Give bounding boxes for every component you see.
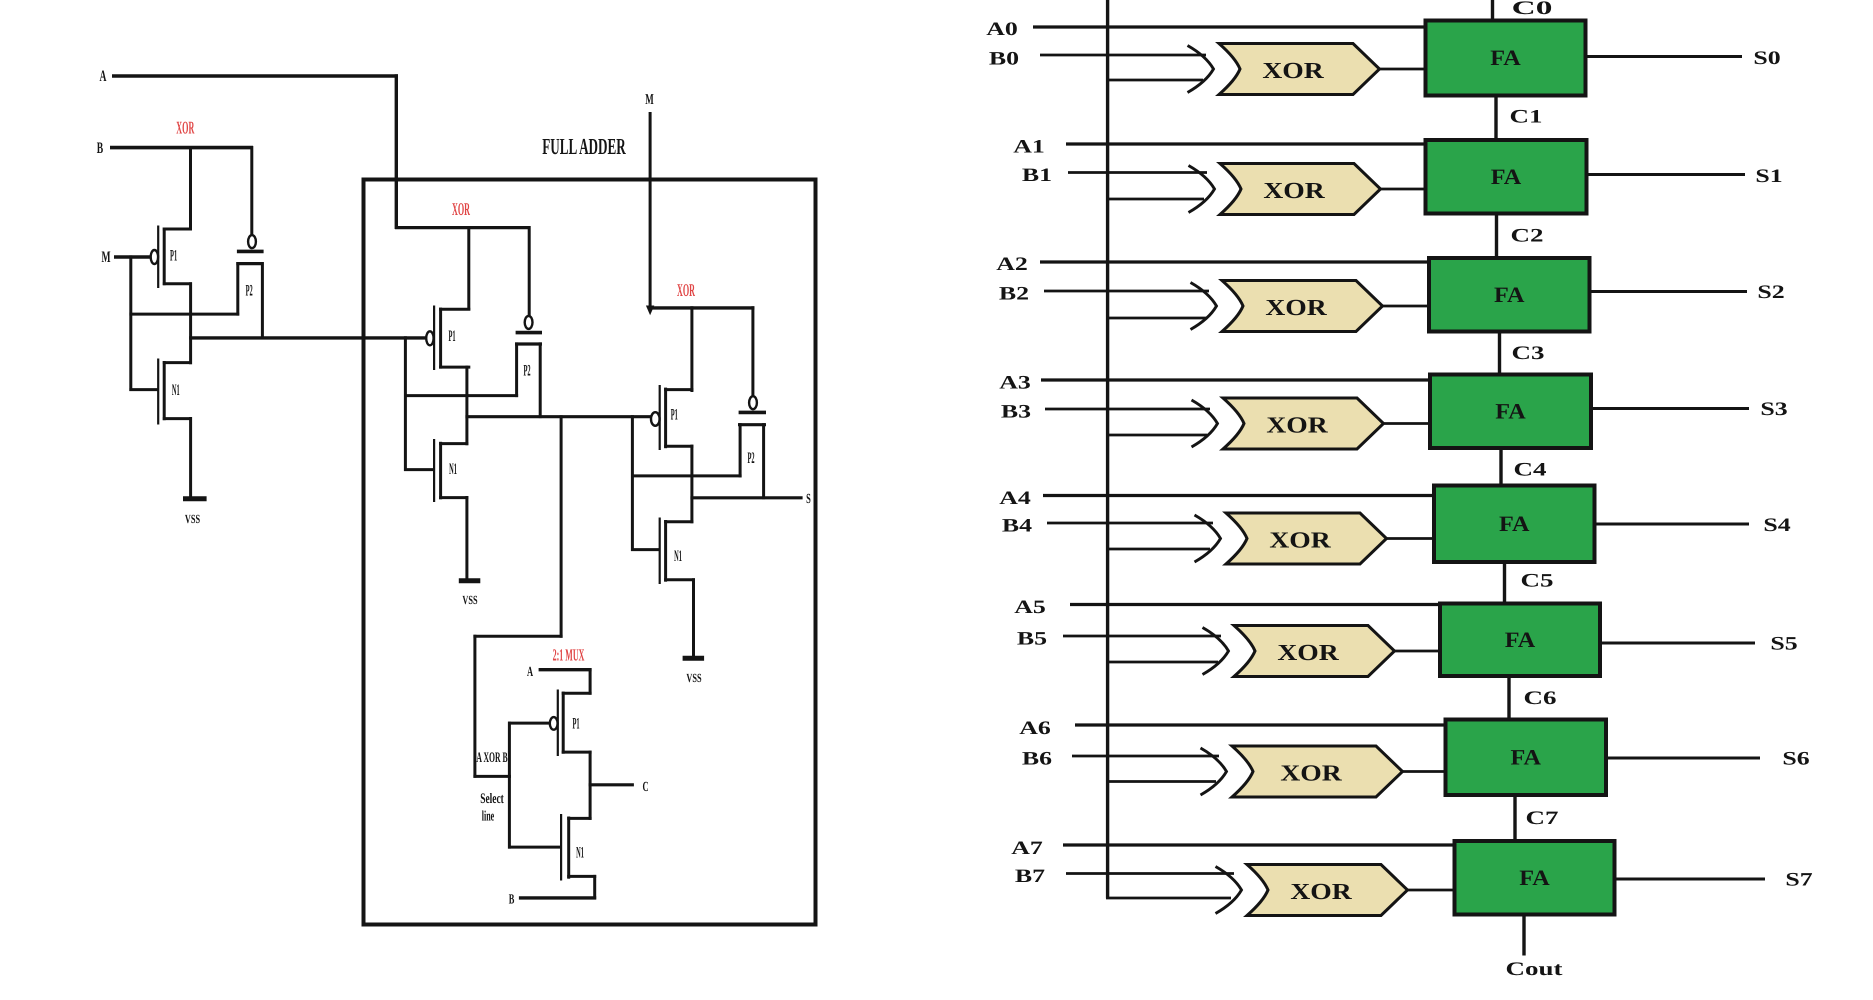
- svg-text:C4: C4: [1514, 460, 1548, 481]
- wire carry C3: [1498, 332, 1501, 375]
- svg-text:VSS: VSS: [462, 593, 477, 607]
- wire A3: [1041, 378, 1430, 381]
- transistor P2 (XOR3) gate bar: [739, 411, 766, 415]
- svg-text:VSS: VSS: [185, 512, 200, 526]
- wire carry C4: [1499, 448, 1502, 486]
- wire B5: [1063, 635, 1221, 638]
- wire A4: [1043, 494, 1434, 497]
- wire XOR3 left node to P2 left leg: [631, 474, 742, 477]
- gate XOR0 input chevron: [1188, 46, 1214, 93]
- wire XOR2 output to XOR3 P1: [465, 415, 651, 418]
- transistor N1 (MUX) source lead: [567, 875, 596, 878]
- svg-text:FA: FA: [1494, 282, 1525, 307]
- wire carry C1: [1494, 96, 1497, 141]
- wire XOR6 output: [1401, 770, 1446, 773]
- svg-text:S2: S2: [1757, 282, 1784, 303]
- ground VSS (XOR1) bar: [183, 496, 207, 501]
- wire XOR2 top to P2 gate: [528, 226, 531, 317]
- wire select input row 6: [1106, 780, 1216, 783]
- wire B3: [1045, 408, 1210, 411]
- svg-text:A5: A5: [1014, 597, 1046, 618]
- wire XOR7 output: [1406, 889, 1455, 892]
- transistor N1 (XOR2) gate bar: [433, 439, 435, 502]
- svg-text:FA: FA: [1499, 511, 1530, 536]
- svg-text:Cout: Cout: [1506, 959, 1564, 980]
- svg-text:Select: Select: [480, 791, 504, 807]
- svg-text:B2: B2: [999, 284, 1029, 305]
- wire A2: [1040, 260, 1429, 263]
- transistor N1 (XOR1) gate bar: [157, 359, 159, 425]
- transistor P2 (XOR1) right leg: [261, 262, 264, 339]
- transistor P2 (XOR1) gate bubble: [248, 235, 256, 248]
- svg-text:B1: B1: [1022, 165, 1052, 186]
- wire select to N1 gate (MUX): [508, 846, 561, 849]
- wire select input row 7: [1106, 897, 1231, 900]
- transistor N1 (XOR2) source lead: [439, 496, 468, 499]
- wire XOR3 left node to N1 gate: [631, 548, 660, 551]
- wire select line vertical: [508, 722, 511, 849]
- transistor P1 (XOR1) gate bar: [157, 226, 159, 289]
- svg-text:XOR: XOR: [1269, 528, 1331, 553]
- wire select junction horizontal: [473, 635, 562, 638]
- svg-text:line: line: [482, 809, 495, 825]
- svg-text:M: M: [645, 92, 654, 108]
- svg-text:B: B: [509, 893, 515, 908]
- transistor P1 (XOR2) drain lead: [439, 308, 470, 311]
- transistor N1 (XOR3) channel bar: [664, 520, 667, 582]
- gate XOR1 input chevron: [1189, 166, 1215, 213]
- transistor P2 (XOR2) gate bubble: [525, 316, 533, 329]
- wire A5: [1070, 603, 1440, 606]
- svg-text:A7: A7: [1011, 838, 1043, 859]
- svg-text:A XOR B: A XOR B: [476, 750, 507, 766]
- wire XOR0 output: [1378, 68, 1426, 71]
- svg-text:S5: S5: [1770, 634, 1797, 655]
- gate XOR7 body: [1247, 865, 1408, 916]
- gate XOR0 body: [1219, 44, 1380, 95]
- wire N1 source to VSS (XOR2): [465, 496, 468, 580]
- svg-text:M: M: [101, 249, 110, 266]
- wire select drop vertical: [473, 635, 476, 778]
- gate XOR6 body: [1232, 746, 1403, 797]
- wire B to P2 gate: [250, 146, 253, 236]
- transistor P1 (XOR1) source lead: [163, 282, 192, 285]
- transistor P1 (XOR3) gate bubble: [651, 412, 660, 426]
- wire XOR1 output vertical: [189, 282, 192, 364]
- svg-text:N1: N1: [674, 548, 682, 565]
- wire A0: [1033, 25, 1426, 28]
- wire S6: [1606, 757, 1760, 760]
- transistor P2 (XOR3) right leg: [762, 423, 765, 499]
- svg-text:A: A: [527, 665, 534, 680]
- svg-text:B4: B4: [1002, 516, 1033, 537]
- wire N1 source to VSS (XOR1): [189, 417, 192, 498]
- wire XOR1 output to XOR2 P1: [189, 336, 426, 339]
- svg-text:S0: S0: [1753, 48, 1780, 69]
- wire B horizontal: [110, 146, 253, 150]
- wire XOR3 top horizontal: [649, 306, 755, 309]
- wire carry C7: [1513, 795, 1516, 841]
- transistor N1 (XOR1) source lead: [163, 417, 192, 420]
- gate XOR4 body: [1226, 513, 1387, 564]
- svg-text:C3: C3: [1512, 343, 1545, 364]
- svg-text:FA: FA: [1519, 865, 1550, 890]
- wire S5: [1600, 642, 1755, 645]
- svg-text:A4: A4: [999, 488, 1031, 509]
- svg-text:C7: C7: [1526, 808, 1560, 829]
- wire A to P1 drain (MUX): [589, 668, 592, 695]
- gate XOR3 input chevron: [1192, 400, 1218, 447]
- gate XOR5 input chevron: [1203, 628, 1229, 675]
- svg-text:XOR: XOR: [1266, 413, 1328, 438]
- svg-text:XOR: XOR: [1280, 761, 1342, 786]
- wire A input (MUX): [539, 668, 592, 671]
- svg-text:C: C: [642, 780, 648, 795]
- wire S2: [1590, 290, 1748, 293]
- wire B input (MUX): [519, 896, 596, 899]
- transistor P1 (XOR1) drain lead: [163, 228, 192, 231]
- wire carry C5: [1503, 562, 1506, 604]
- wire S output: [690, 496, 802, 499]
- wire A1: [1066, 142, 1426, 145]
- gate XOR7 input chevron: [1216, 867, 1242, 914]
- full adder FA6 box: [1446, 720, 1607, 796]
- svg-text:B5: B5: [1017, 629, 1047, 650]
- transistor N1 (XOR1) drain lead: [163, 361, 192, 364]
- svg-text:A0: A0: [986, 19, 1018, 40]
- svg-text:P2: P2: [747, 450, 754, 467]
- wire A6: [1075, 723, 1446, 726]
- transistor P1 (XOR3) source lead: [664, 445, 693, 448]
- transistor P2 (XOR1) left leg: [236, 262, 239, 316]
- gate XOR2 input chevron: [1191, 283, 1217, 330]
- wire select input row 5: [1106, 661, 1218, 664]
- svg-text:S1: S1: [1755, 166, 1782, 187]
- transistor P2 (XOR3) gate bubble: [749, 396, 757, 409]
- transistor P1 (MUX) gate bar: [557, 690, 559, 757]
- svg-text:XOR: XOR: [176, 118, 194, 138]
- svg-text:B: B: [97, 140, 104, 157]
- transistor N1 (XOR3) drain lead: [664, 520, 693, 523]
- transistor N1 (XOR2) channel bar: [439, 442, 442, 500]
- transistor N1 (MUX) channel bar: [567, 817, 570, 879]
- wire XOR2 output to MUX select: [560, 415, 563, 638]
- svg-text:FA: FA: [1491, 164, 1522, 189]
- svg-text:S4: S4: [1763, 515, 1791, 536]
- svg-text:C1: C1: [1510, 107, 1543, 128]
- wire XOR3 top to P1 drain: [690, 306, 693, 392]
- svg-text:P2: P2: [246, 283, 253, 300]
- full adder FA2 box: [1429, 258, 1590, 332]
- wire B7: [1066, 872, 1234, 875]
- transistor N1 (MUX) drain lead: [567, 817, 591, 820]
- wire S3: [1591, 407, 1749, 410]
- wire A7: [1063, 843, 1455, 846]
- svg-text:FA: FA: [1490, 45, 1521, 70]
- transistor P1 (XOR3) drain lead: [664, 388, 693, 391]
- wire XOR4 output: [1385, 537, 1435, 540]
- wire P1 source to N1 drain (MUX): [589, 751, 592, 820]
- svg-text:S7: S7: [1785, 870, 1813, 891]
- junction arrow M into XOR3: [646, 306, 654, 316]
- transistor N1 (MUX) gate bar: [560, 814, 562, 881]
- transistor P1 (MUX) channel bar: [562, 692, 565, 754]
- transistor N1 (XOR3) gate bar: [659, 518, 661, 585]
- svg-text:C0: C0: [1512, 0, 1553, 19]
- full adder FA5 box: [1440, 604, 1600, 677]
- transistor P1 (XOR1) gate bubble: [151, 250, 158, 264]
- svg-text:A1: A1: [1013, 137, 1045, 158]
- gate XOR2 body: [1222, 281, 1383, 332]
- wire B1: [1068, 171, 1207, 174]
- svg-text:C2: C2: [1511, 226, 1544, 247]
- svg-text:B7: B7: [1015, 866, 1046, 887]
- wire A vertical drop: [395, 74, 398, 229]
- transistor P2 (XOR3) channel bar: [738, 423, 766, 426]
- svg-text:S: S: [806, 492, 811, 507]
- full adder FA1 box: [1426, 140, 1587, 214]
- wire XOR2 output vertical: [465, 366, 468, 446]
- svg-text:N1: N1: [449, 461, 457, 478]
- transistor N1 (XOR1) channel bar: [163, 361, 166, 420]
- wire B0: [1040, 54, 1206, 57]
- wire B6: [1072, 755, 1219, 758]
- transistor P1 (XOR2) gate bubble: [426, 331, 433, 345]
- svg-text:S3: S3: [1760, 399, 1787, 420]
- transistor P2 (XOR2) left leg: [515, 342, 518, 397]
- svg-text:VSS: VSS: [686, 671, 701, 685]
- wire A XOR B feed: [473, 775, 511, 778]
- wire select input row 0: [1106, 79, 1203, 82]
- wire XOR2 output: [1381, 305, 1430, 308]
- svg-text:XOR: XOR: [1262, 58, 1324, 83]
- svg-text:C5: C5: [1521, 571, 1554, 592]
- svg-text:XOR: XOR: [1263, 178, 1325, 203]
- wire select input row 1: [1106, 198, 1204, 201]
- svg-text:P1: P1: [170, 247, 177, 264]
- wire carry C2: [1495, 214, 1498, 259]
- wire XOR2 left node to N1 gate: [404, 468, 434, 471]
- transistor P1 (XOR3) gate bar: [659, 385, 661, 450]
- gate XOR5 body: [1234, 626, 1395, 677]
- full adder FA7 box: [1455, 841, 1615, 915]
- wire B2: [1044, 290, 1209, 293]
- wire XOR2 top to P1 drain: [467, 226, 470, 311]
- svg-text:FA: FA: [1511, 744, 1542, 769]
- svg-text:B6: B6: [1022, 749, 1052, 770]
- node select line label: [480, 791, 504, 825]
- svg-text:A6: A6: [1019, 718, 1051, 739]
- wire XOR3 top to P2 gate: [751, 306, 754, 397]
- wire select input row 4: [1106, 548, 1210, 551]
- wire M node vertical: [129, 255, 132, 391]
- wire XOR3 left node vertical: [631, 415, 634, 551]
- wire A to XOR2 top: [395, 226, 531, 229]
- wire carry C6: [1507, 676, 1510, 720]
- wire M horizontal: [114, 255, 150, 259]
- wire S7: [1615, 878, 1766, 881]
- transistor P1 (MUX) gate bubble: [550, 717, 558, 730]
- wire S4: [1595, 523, 1750, 526]
- svg-text:A: A: [100, 68, 107, 85]
- transistor N1 (XOR3) source lead: [664, 578, 695, 581]
- svg-text:N1: N1: [172, 382, 180, 399]
- transistor P1 (XOR2) gate bar: [433, 306, 435, 371]
- wire select to P1 bubble: [508, 722, 550, 725]
- transistor N1 (XOR2) drain lead: [439, 442, 468, 445]
- transistor P1 (XOR3) channel bar: [664, 388, 667, 449]
- svg-text:P1: P1: [572, 716, 579, 733]
- wire XOR5 output: [1393, 650, 1441, 653]
- wire XOR2 left node vertical: [404, 336, 407, 471]
- gate XOR6 input chevron: [1201, 748, 1227, 795]
- wire B4: [1047, 522, 1213, 525]
- wire XOR3 output: [1382, 422, 1431, 425]
- gate XOR4 input chevron: [1195, 515, 1221, 562]
- ground VSS (XOR3) bar: [683, 656, 705, 661]
- wire XOR1 output: [1379, 188, 1426, 191]
- wire XOR3 output vertical: [690, 445, 693, 524]
- svg-text:XOR: XOR: [1265, 295, 1327, 320]
- full adder FA0 box: [1426, 21, 1586, 96]
- svg-text:C6: C6: [1524, 688, 1557, 709]
- svg-text:P1: P1: [448, 328, 455, 345]
- wire S1: [1587, 173, 1746, 176]
- transistor P2 (XOR2) gate bar: [516, 331, 542, 335]
- transistor P1 (XOR2) source lead: [439, 366, 470, 369]
- wire carry C0: [1491, 0, 1494, 21]
- wire M node to N1 gate: [129, 388, 158, 391]
- svg-text:S6: S6: [1782, 749, 1809, 770]
- transistor P1 (XOR2) channel bar: [439, 308, 442, 369]
- wire C output: [589, 783, 634, 786]
- transistor P1 (MUX) drain lead: [562, 692, 592, 695]
- svg-text:XOR: XOR: [677, 280, 695, 300]
- transistor P2 (XOR1) gate bar: [237, 250, 264, 254]
- full adder FA4 box: [1434, 486, 1595, 563]
- wire B to P1 drain: [189, 146, 192, 231]
- transistor P2 (XOR1) channel bar: [236, 262, 263, 265]
- transistor P2 (XOR3) left leg: [739, 423, 742, 477]
- svg-text:2:1 MUX: 2:1 MUX: [553, 646, 585, 665]
- full adder enclosure box: [364, 180, 816, 925]
- svg-text:A2: A2: [996, 254, 1028, 275]
- transistor P1 (XOR1) channel bar: [163, 228, 166, 286]
- wire Cout: [1522, 915, 1525, 956]
- full adder FA3 box: [1430, 375, 1591, 449]
- svg-text:P2: P2: [523, 363, 530, 380]
- wire M select bus vertical: [1106, 0, 1109, 898]
- wire M vertical (full adder): [649, 112, 652, 308]
- svg-text:XOR: XOR: [1290, 879, 1352, 904]
- gate XOR1 body: [1220, 164, 1381, 215]
- wire N1 source down (MUX): [593, 875, 596, 900]
- ground VSS (XOR2) bar: [459, 578, 481, 583]
- svg-text:A3: A3: [999, 373, 1031, 394]
- svg-text:FULL ADDER: FULL ADDER: [542, 134, 626, 159]
- transistor P1 (MUX) source lead: [562, 751, 592, 754]
- wire S0: [1586, 55, 1743, 58]
- wire XOR2 left node to P2 left leg: [404, 394, 518, 397]
- svg-text:N1: N1: [576, 845, 584, 862]
- transistor P2 (XOR2) channel bar: [515, 342, 542, 345]
- wire N1 source to VSS (XOR3): [692, 578, 695, 657]
- svg-text:XOR: XOR: [1277, 640, 1339, 665]
- transistor P2 (XOR2) right leg: [539, 342, 542, 418]
- gate XOR3 body: [1223, 398, 1384, 449]
- svg-text:B0: B0: [989, 49, 1019, 70]
- wire A horizontal: [112, 74, 398, 77]
- svg-text:P1: P1: [671, 407, 678, 424]
- svg-text:FA: FA: [1495, 398, 1526, 423]
- svg-text:B3: B3: [1001, 402, 1031, 423]
- svg-text:XOR: XOR: [452, 199, 470, 219]
- wire M node to P2 left leg: [129, 313, 239, 316]
- wire select input row 3: [1106, 434, 1207, 437]
- svg-text:FA: FA: [1505, 627, 1536, 652]
- wire select input row 2: [1106, 317, 1206, 320]
